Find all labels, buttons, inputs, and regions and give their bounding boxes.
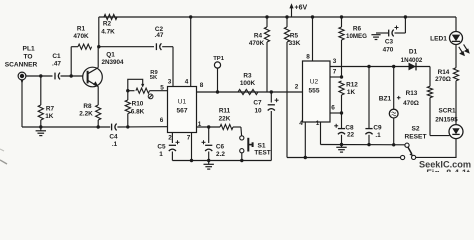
node C7 junction: [270, 90, 273, 93]
svg-text:4: 4: [299, 120, 303, 127]
svg-text:R14: R14: [438, 69, 450, 76]
svg-text:RESET: RESET: [405, 134, 427, 141]
svg-text:LED1: LED1: [430, 36, 447, 43]
svg-text:2: 2: [168, 135, 172, 142]
capacitor C2: [99, 46, 154, 48]
svg-text:2.2K: 2.2K: [79, 111, 93, 118]
svg-text:R6: R6: [353, 26, 362, 33]
svg-text:470K: 470K: [249, 40, 265, 47]
svg-text:10: 10: [254, 108, 262, 115]
svg-text:TEST: TEST: [254, 149, 270, 156]
wire top +6V bus: [99, 16, 456, 18]
node pin4 bus junction: [189, 15, 192, 18]
svg-text:6.8K: 6.8K: [131, 109, 145, 116]
svg-text:8: 8: [306, 54, 310, 61]
svg-text:2N3904: 2N3904: [101, 59, 124, 66]
resistor R2: [104, 14, 117, 19]
test point TP1: [214, 62, 220, 68]
svg-text:C8: C8: [345, 124, 354, 131]
node R7 bottom / ground: [39, 125, 42, 128]
wire U2 pin7: [330, 76, 342, 78]
svg-text:.1: .1: [112, 141, 118, 148]
svg-text:5K: 5K: [150, 75, 158, 81]
svg-text:4: 4: [185, 79, 189, 86]
capacitor C5: [169, 144, 176, 146]
wire 555 ground rail: [321, 144, 406, 146]
trimmer indicator R9: [148, 94, 153, 99]
connector PL1 jack: [18, 72, 26, 80]
node R9/R10 junction: [126, 89, 129, 92]
switch S1 TEST: [240, 136, 244, 140]
svg-text:R2: R2: [103, 21, 112, 28]
capacitor C6: [207, 125, 210, 128]
svg-text:U1: U1: [178, 99, 187, 106]
wire base input: [26, 75, 53, 77]
LED LED1: [450, 32, 463, 45]
svg-text:C5: C5: [157, 144, 166, 151]
wire U2 pin1 down: [320, 122, 322, 145]
wire reset bus: [287, 157, 400, 159]
buzzer BZ1: [392, 65, 395, 68]
resistor R6: [340, 15, 343, 18]
svg-text:.1: .1: [375, 132, 381, 139]
diode D1 1N4002: [409, 63, 417, 71]
svg-text:7: 7: [187, 135, 191, 142]
resistor R8: [96, 105, 101, 120]
capacitor C7: [270, 92, 272, 103]
capacitor C4: [111, 124, 113, 131]
ground C3: [371, 34, 380, 36]
svg-text:C7: C7: [253, 100, 262, 107]
svg-text:R3: R3: [243, 73, 252, 80]
resistor R7: [40, 76, 42, 105]
wire R11 to S1: [240, 127, 243, 136]
svg-text:BZ1: BZ1: [379, 96, 392, 103]
wire left ground bus: [172, 160, 271, 162]
svg-text:3: 3: [333, 58, 337, 65]
svg-text:R8: R8: [83, 103, 92, 110]
wire LED to R14: [455, 45, 457, 68]
wire C2 to U1 pin3: [172, 47, 174, 87]
svg-text:R10: R10: [132, 101, 144, 108]
svg-text:C1: C1: [52, 53, 61, 60]
svg-text:8-4-1t: 8-4-1t: [446, 168, 470, 172]
svg-text:270Ω: 270Ω: [435, 76, 451, 83]
svg-text:PL1: PL1: [23, 46, 35, 53]
ground input: [40, 127, 42, 131]
resistor R3: [238, 89, 258, 94]
svg-text:R13: R13: [406, 90, 418, 97]
wire U1 pin7: [191, 133, 193, 161]
svg-text:22: 22: [347, 132, 355, 139]
svg-text:SCANNER: SCANNER: [5, 62, 38, 69]
resistor R12: [339, 81, 344, 95]
capacitor C3: [404, 15, 407, 18]
svg-text:SCR1: SCR1: [438, 108, 455, 115]
node pin7/R6/R12: [340, 75, 343, 78]
capacitor C1: [54, 73, 56, 80]
svg-text:R4: R4: [254, 33, 263, 40]
svg-text:.47: .47: [155, 32, 164, 39]
resistor R5: [285, 15, 288, 18]
svg-text:R5: R5: [290, 33, 299, 40]
svg-text:22K: 22K: [219, 116, 231, 123]
svg-text:1: 1: [159, 151, 163, 158]
svg-text:C6: C6: [216, 144, 225, 151]
resistor R11: [220, 124, 233, 129]
SCR1 2N1595: [449, 125, 463, 139]
wire U1 pin8 output: [197, 91, 303, 93]
svg-text:6: 6: [160, 117, 164, 124]
svg-text:Q1: Q1: [106, 52, 115, 59]
svg-text:470K: 470K: [73, 33, 89, 40]
svg-text:2N1595: 2N1595: [435, 117, 458, 124]
wire U1 pin2: [171, 133, 173, 144]
op-amp U2 555 timer: [303, 61, 331, 122]
node R10 bottom: [126, 125, 129, 128]
potentiometer R9 5K: [128, 90, 135, 92]
svg-text:10MEG: 10MEG: [346, 33, 367, 40]
switch S2 RESET: [405, 143, 409, 147]
wire Q1 emitter: [97, 86, 99, 105]
svg-text:R7: R7: [46, 106, 55, 113]
node R7 top: [39, 74, 42, 77]
wire bus to LED: [455, 17, 457, 32]
op-amp U1 567 tone decoder: [168, 87, 197, 133]
svg-text:8: 8: [200, 82, 204, 89]
svg-text:C3: C3: [385, 39, 394, 46]
svg-text:R12: R12: [346, 81, 358, 88]
svg-text:C4: C4: [109, 134, 118, 141]
svg-text:TP1: TP1: [213, 56, 225, 62]
wire SCR gate: [430, 135, 449, 137]
svg-text:U2: U2: [310, 79, 319, 86]
svg-text:Fig: Fig: [426, 168, 439, 172]
node pin4 reset bus: [304, 156, 307, 159]
svg-text:TO: TO: [23, 54, 32, 61]
wire U1 pin4 to bus: [190, 17, 192, 87]
wire U2 pin3 output: [330, 66, 430, 68]
node pin8 bus junction: [311, 15, 314, 18]
resistor R13: [429, 67, 431, 87]
wire U2 pin8 to bus: [312, 17, 314, 61]
svg-text:3: 3: [168, 79, 172, 86]
resistor R10: [127, 91, 129, 100]
transistor Q1 2N3904: [83, 67, 103, 87]
svg-text:R1: R1: [77, 26, 86, 33]
svg-text:470: 470: [383, 47, 394, 54]
svg-text:555: 555: [308, 88, 319, 95]
node Q1 collector junction: [97, 45, 100, 48]
svg-text:2.2: 2.2: [216, 151, 225, 158]
wire U2 pin4 down: [304, 122, 306, 158]
node R8 bottom: [97, 125, 100, 128]
svg-text:.47: .47: [52, 61, 61, 68]
wire U2 pin6: [330, 112, 342, 114]
wire S1 to gnd bus: [241, 153, 243, 161]
svg-text:5: 5: [160, 84, 164, 91]
wire bottom-left ground return: [21, 80, 23, 127]
supply +6V arrow: [291, 7, 293, 18]
svg-text:2: 2: [295, 83, 299, 90]
resistor R14: [453, 68, 458, 81]
node R1/base junction: [70, 74, 73, 77]
ground U1 section: [208, 161, 210, 165]
svg-text:33K: 33K: [289, 40, 301, 47]
svg-text:1N4002: 1N4002: [401, 57, 423, 64]
svg-text:1K: 1K: [347, 89, 356, 96]
wire U1 pin1: [197, 126, 221, 128]
svg-text:470Ω: 470Ω: [403, 100, 419, 107]
svg-text:1K: 1K: [45, 113, 54, 120]
svg-text:6: 6: [331, 105, 335, 112]
svg-text:R11: R11: [219, 108, 231, 115]
svg-text:100K: 100K: [240, 80, 256, 87]
capacitor C9: [367, 65, 370, 68]
node pin6/R12/C8: [340, 111, 343, 114]
svg-text:D1: D1: [409, 49, 418, 56]
resistor R1: [78, 44, 92, 49]
node C6 gnd: [207, 159, 210, 162]
svg-text:+6V: +6V: [295, 4, 308, 11]
svg-text:567: 567: [176, 108, 187, 115]
node C8 rail: [340, 143, 343, 146]
svg-text:S2: S2: [411, 126, 419, 133]
node pin7 gnd: [190, 159, 193, 162]
svg-text:1: 1: [316, 120, 320, 127]
svg-text:4.7K: 4.7K: [101, 29, 115, 36]
svg-text:7: 7: [333, 68, 337, 75]
LED arrows: [459, 44, 469, 55]
svg-text:C9: C9: [373, 125, 382, 132]
capacitor C8: [341, 113, 343, 129]
ground 555 rail: [341, 145, 343, 148]
wire SCR cathode to S2: [416, 139, 456, 158]
wire Q1 collector: [97, 47, 99, 68]
wire TP1 down: [217, 68, 219, 92]
resistor R4: [265, 15, 268, 18]
node TP1 junction: [216, 90, 219, 93]
wire scan artifact marks: [0, 160, 7, 164]
node bus corner to R1/Q1 collector: [98, 17, 100, 47]
